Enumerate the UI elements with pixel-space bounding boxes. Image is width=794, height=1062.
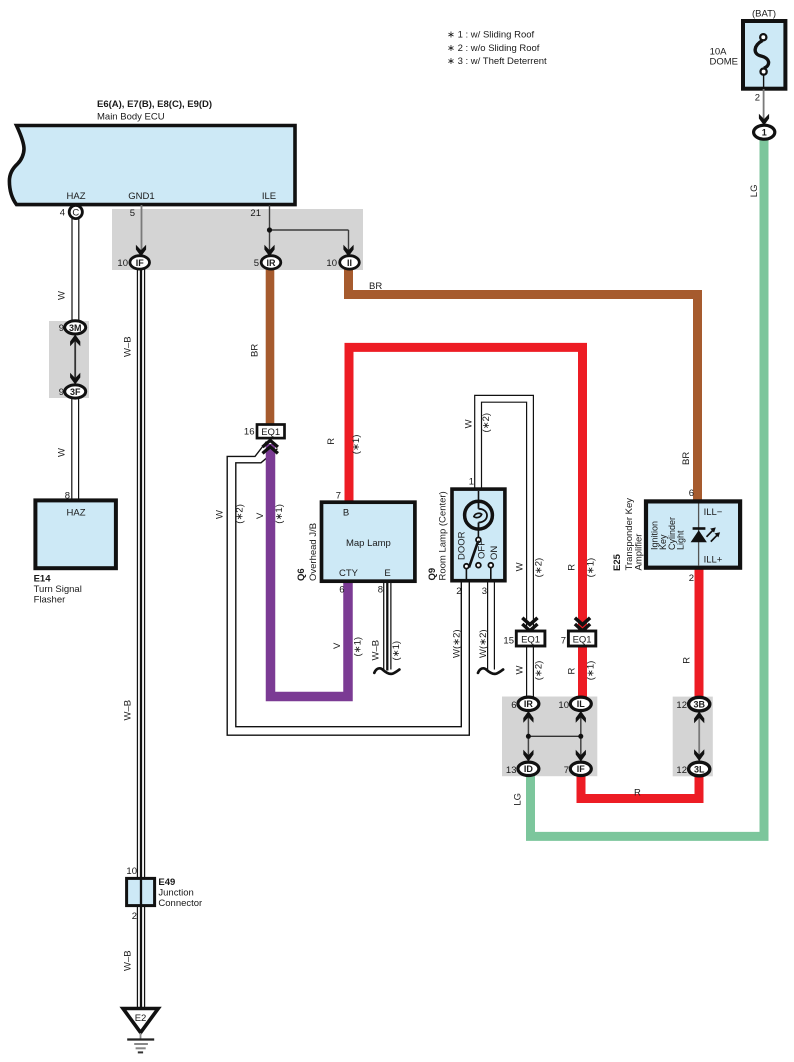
switch DOOR/OFF/ON xyxy=(477,529,479,538)
svg-text:2: 2 xyxy=(456,586,461,597)
links IR-ID and IL-IF with arrows and dots xyxy=(523,710,586,762)
svg-text:R: R xyxy=(567,668,578,675)
svg-text:Turn Signal: Turn Signal xyxy=(34,584,82,595)
svg-text:Connector: Connector xyxy=(158,898,202,909)
connector shading 3B/3L xyxy=(673,697,713,777)
svg-text:4: 4 xyxy=(60,208,65,219)
svg-text:(∗1): (∗1) xyxy=(391,641,402,661)
svg-text:E14: E14 xyxy=(34,574,52,585)
svg-text:7: 7 xyxy=(561,636,566,647)
svg-text:∗ 2 : w/o Sliding Roof: ∗ 2 : w/o Sliding Roof xyxy=(447,43,540,54)
svg-text:W: W xyxy=(57,448,68,457)
connector oval II pin10 xyxy=(326,256,359,269)
svg-text:ILL+: ILL+ xyxy=(704,555,723,566)
svg-text:W(∗2): W(∗2) xyxy=(452,629,463,658)
svg-text:Flasher: Flasher xyxy=(34,595,66,606)
wire R (map lamp pin7 B to EQ1 pin7) xyxy=(349,347,583,630)
svg-text:(∗2): (∗2) xyxy=(534,558,545,578)
svg-text:IL: IL xyxy=(577,699,586,709)
svg-text:IR: IR xyxy=(524,699,534,709)
svg-text:BR: BR xyxy=(681,452,692,465)
connector oval IL pin10 xyxy=(558,697,591,711)
main body ECU E6(A) E7(B) E8(C) E9(D) xyxy=(9,126,295,205)
svg-text:Main Body ECU: Main Body ECU xyxy=(97,112,165,123)
svg-text:GND1: GND1 xyxy=(128,191,154,202)
wire R (E25 pin2 to connector 3B) xyxy=(695,566,704,700)
svg-text:LG: LG xyxy=(749,185,760,198)
connector shading IR/IL/ID/IF xyxy=(502,697,597,777)
svg-text:B: B xyxy=(343,508,349,519)
svg-text:∗ 1 : w/ Sliding Roof: ∗ 1 : w/ Sliding Roof xyxy=(447,30,535,41)
svg-text:R: R xyxy=(682,657,693,664)
node 1 oval (battery feed) xyxy=(754,125,775,139)
connector shading 3M/3F xyxy=(49,321,89,398)
break squiggle on room lamp pin3 wire xyxy=(478,668,503,674)
svg-text:Junction: Junction xyxy=(158,887,193,898)
wire W(*2) (EQ1 pin15 to connector IR) xyxy=(526,644,534,699)
svg-text:CTY: CTY xyxy=(339,568,359,579)
svg-text:DOME: DOME xyxy=(710,57,739,68)
svg-text:(∗2): (∗2) xyxy=(235,504,246,524)
svg-text:3F: 3F xyxy=(70,387,81,397)
svg-text:EQ1: EQ1 xyxy=(261,427,280,438)
connector oval 3B pin12 xyxy=(676,697,709,711)
svg-text:5: 5 xyxy=(130,208,135,219)
svg-text:IF: IF xyxy=(577,764,586,774)
svg-text:HAZ: HAZ xyxy=(67,191,86,202)
svg-text:9: 9 xyxy=(59,323,64,334)
wire W(*2) (room lamp pin1 to EQ1 pin15) xyxy=(478,399,530,630)
junction dot on ILE lead xyxy=(267,227,272,232)
svg-text:Amplifier: Amplifier xyxy=(634,534,645,571)
svg-text:II: II xyxy=(347,258,352,268)
svg-text:3: 3 xyxy=(482,586,487,597)
splice EQ1 pin7 xyxy=(561,631,596,647)
wire W(*2) (room lamp pin3, cut off) xyxy=(487,579,495,670)
svg-text:∗ 3 : w/ Theft Deterrent: ∗ 3 : w/ Theft Deterrent xyxy=(447,56,547,67)
svg-text:1: 1 xyxy=(762,128,767,138)
arrow into II xyxy=(343,245,353,257)
svg-text:2: 2 xyxy=(689,573,694,584)
svg-text:Room Lamp (Center): Room Lamp (Center) xyxy=(438,491,449,580)
svg-text:(∗1): (∗1) xyxy=(586,661,597,681)
LED ignition key cylinder light xyxy=(691,527,721,542)
svg-text:Overhead J/B: Overhead J/B xyxy=(308,523,319,581)
wire R (EQ1 pin7 to connector IL) xyxy=(578,644,587,699)
svg-text:R: R xyxy=(634,788,641,799)
svg-text:7: 7 xyxy=(336,491,341,502)
chevrons at EQ1 pin7 xyxy=(575,618,590,631)
svg-text:Light: Light xyxy=(676,530,686,550)
svg-text:21: 21 xyxy=(250,208,261,219)
svg-text:3L: 3L xyxy=(694,764,705,774)
svg-text:2: 2 xyxy=(755,92,760,103)
svg-text:(∗1): (∗1) xyxy=(353,637,364,657)
wire R (connector 3L to connector IF) xyxy=(581,772,699,799)
connector oval 3F pin9 xyxy=(59,385,86,398)
svg-text:W: W xyxy=(215,510,226,519)
connector oval IF pin7 xyxy=(564,762,592,776)
svg-text:C: C xyxy=(72,207,79,218)
svg-text:ILE: ILE xyxy=(262,191,276,202)
svg-text:LG: LG xyxy=(513,793,524,806)
svg-text:W–B: W–B xyxy=(122,336,133,357)
connector oval ID pin13 xyxy=(506,762,539,776)
svg-text:W: W xyxy=(57,291,68,300)
svg-text:R: R xyxy=(326,438,337,445)
wire W-B(*1) (map lamp pin8 E, cut off) xyxy=(383,579,391,671)
wire LG (node 1 to connector ID) xyxy=(531,138,765,836)
svg-text:EQ1: EQ1 xyxy=(521,635,540,646)
svg-text:ID: ID xyxy=(524,764,534,774)
svg-text:16: 16 xyxy=(244,427,255,438)
svg-text:10: 10 xyxy=(126,866,137,877)
svg-text:5: 5 xyxy=(254,258,259,269)
svg-text:V: V xyxy=(332,642,343,649)
wire V (EQ1 pin16 to map lamp pin6 CTY) xyxy=(271,444,349,697)
connector oval IR pin5 xyxy=(254,256,281,269)
pin 4 connector C of ECU xyxy=(60,205,83,218)
svg-text:(∗2): (∗2) xyxy=(534,661,545,681)
link 3M to 3F with arrows xyxy=(70,335,80,385)
svg-text:15: 15 xyxy=(503,636,514,647)
svg-text:IF: IF xyxy=(136,258,145,268)
svg-text:1: 1 xyxy=(469,477,474,488)
svg-text:E25: E25 xyxy=(612,553,623,571)
svg-text:(∗1): (∗1) xyxy=(351,435,362,455)
svg-text:Q6: Q6 xyxy=(296,568,307,581)
svg-text:W: W xyxy=(464,419,475,428)
svg-text:9: 9 xyxy=(59,387,64,398)
wire W-B (connector IF to ground E2 via E49) xyxy=(137,268,145,1009)
svg-text:13: 13 xyxy=(506,765,517,776)
wire W (ECU pin4 C to connector 3M) xyxy=(71,216,79,323)
svg-text:10: 10 xyxy=(326,258,337,269)
splice EQ1 pin15 xyxy=(503,631,544,647)
E14 turn signal flasher xyxy=(34,491,116,606)
svg-text:E2: E2 xyxy=(135,1013,147,1024)
link 3B to 3L with arrows xyxy=(694,711,704,762)
svg-text:12: 12 xyxy=(676,700,687,711)
break squiggle on W-B(*1) xyxy=(374,668,399,674)
legend notes *1 *2 *3 xyxy=(447,30,547,68)
connector oval 3L pin12 xyxy=(676,762,709,776)
svg-text:E6(A), E7(B), E8(C), E9(D): E6(A), E7(B), E8(C), E9(D) xyxy=(97,99,212,110)
junction block shading (top J/B band) xyxy=(112,209,363,270)
svg-text:3M: 3M xyxy=(69,323,82,333)
svg-text:(BAT): (BAT) xyxy=(752,9,776,20)
wire W (connector 3F to E14 pin8) xyxy=(71,396,79,502)
svg-text:BR: BR xyxy=(369,281,382,292)
svg-text:2: 2 xyxy=(132,911,137,922)
svg-text:(∗1): (∗1) xyxy=(274,504,285,524)
svg-text:3B: 3B xyxy=(693,700,705,710)
wire BR (connector II to E25 pin6) xyxy=(349,268,698,503)
junction connector E49 xyxy=(126,866,202,922)
splice EQ1 pin16 xyxy=(244,425,285,439)
svg-text:IR: IR xyxy=(267,258,277,268)
svg-text:W: W xyxy=(515,562,526,571)
svg-text:ON: ON xyxy=(489,546,500,560)
svg-text:12: 12 xyxy=(676,765,687,776)
chevrons at EQ1 pin15 xyxy=(522,618,537,631)
svg-text:(∗1): (∗1) xyxy=(586,558,597,578)
svg-text:HAZ: HAZ xyxy=(67,508,86,519)
connector oval 3M pin9 xyxy=(59,321,86,334)
connector oval IR pin6 xyxy=(511,697,539,711)
arrow into IR xyxy=(264,245,274,257)
svg-text:W: W xyxy=(515,666,526,675)
svg-text:OFF: OFF xyxy=(476,540,487,559)
chevrons at EQ1 pin16 xyxy=(263,440,278,453)
svg-text:10: 10 xyxy=(558,700,569,711)
svg-text:BR: BR xyxy=(250,344,261,357)
ground E2 xyxy=(123,1009,158,1053)
svg-text:(∗2): (∗2) xyxy=(481,413,492,433)
svg-text:Map Lamp: Map Lamp xyxy=(346,538,391,549)
svg-text:W–B: W–B xyxy=(122,700,133,721)
svg-text:V: V xyxy=(255,512,266,519)
svg-text:10: 10 xyxy=(117,258,128,269)
svg-text:R: R xyxy=(567,564,578,571)
svg-text:6: 6 xyxy=(689,488,694,499)
pin 5 lead from GND1 xyxy=(130,205,146,257)
svg-text:Q9: Q9 xyxy=(427,568,438,581)
svg-text:EQ1: EQ1 xyxy=(573,635,592,646)
wire W(*2) (EQ1 pin16 splice loop to room lamp pin2) xyxy=(227,442,469,736)
svg-text:6: 6 xyxy=(339,585,344,596)
wire BR (connector IR to EQ1 pin16) xyxy=(266,268,275,426)
connector oval IF pin10 xyxy=(117,256,149,269)
svg-text:W(∗2): W(∗2) xyxy=(478,629,489,658)
pin 21 lead from ILE with branch xyxy=(250,205,348,251)
svg-text:W–B: W–B xyxy=(371,640,382,661)
lamp bulb symbol xyxy=(465,501,493,529)
svg-text:W–B: W–B xyxy=(122,950,133,971)
svg-text:E49: E49 xyxy=(158,877,175,888)
svg-text:E: E xyxy=(384,568,390,579)
svg-text:6: 6 xyxy=(511,700,516,711)
svg-text:8: 8 xyxy=(378,585,383,596)
svg-text:DOOR: DOOR xyxy=(457,531,468,560)
svg-text:7: 7 xyxy=(564,765,569,776)
svg-text:ILL−: ILL− xyxy=(704,507,723,518)
